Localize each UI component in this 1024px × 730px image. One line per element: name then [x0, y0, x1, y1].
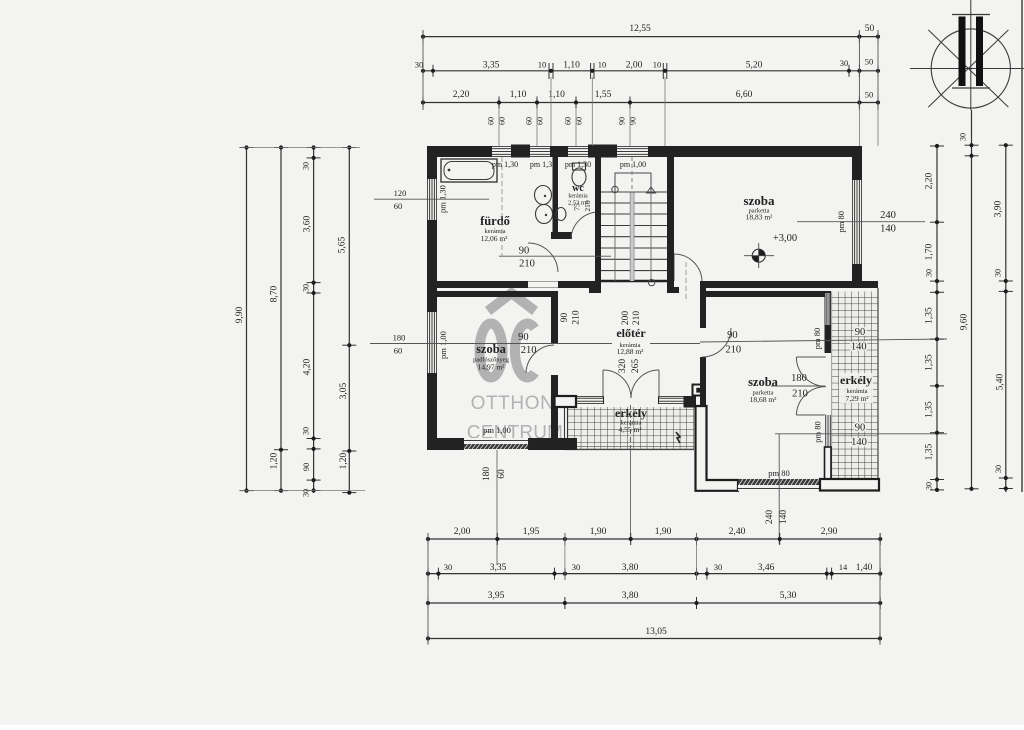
- stair walking line left: [614, 192, 616, 281]
- upper room window size 240/140: [797, 221, 925, 223]
- bathroom axis dashed line: [501, 157, 503, 256]
- stair west wall foot: [589, 287, 601, 293]
- svg-text:30: 30: [994, 465, 1003, 473]
- balcony door axis line: [630, 405, 632, 450]
- washbasin 1: [535, 186, 552, 205]
- svg-text:pm 1,00: pm 1,00: [483, 425, 511, 435]
- left dimension column 8,70 / 1,20: [280, 148, 282, 491]
- double balcony door arcs: [603, 370, 631, 398]
- svg-text:6,60: 6,60: [736, 90, 753, 100]
- svg-text:3,80: 3,80: [622, 591, 639, 601]
- stair treads: [601, 191, 667, 193]
- stair walking line start circle left: [612, 186, 618, 192]
- svg-text:30: 30: [840, 58, 849, 68]
- top wall pier between bathroom windows: [511, 145, 530, 158]
- svg-text:7,29 m²: 7,29 m²: [845, 394, 869, 403]
- svg-text:30: 30: [994, 269, 1003, 277]
- svg-text:1,70: 1,70: [925, 243, 935, 260]
- bottom dimension line 3,95/3,80/5,30: [428, 602, 880, 604]
- bathroom left window size 120/60: [374, 198, 489, 200]
- lower window to right balcony: [825, 415, 832, 447]
- left dimension column 30/3,60/30/4,20/30/90/30: [313, 148, 315, 494]
- svg-text:pm 1,00: pm 1,00: [620, 160, 646, 169]
- stair walking line right: [650, 192, 652, 281]
- svg-text:3,35: 3,35: [490, 563, 507, 573]
- stair walking line start circle bottom: [648, 279, 654, 285]
- level point symbol in upper room: [752, 249, 765, 262]
- right dimension column 3,90/30/5,40/30: [1005, 145, 1007, 492]
- svg-text:210: 210: [572, 310, 582, 325]
- top wall pier left of stair window: [588, 145, 617, 158]
- svg-text:2,20: 2,20: [925, 172, 935, 189]
- svg-text:320: 320: [618, 359, 628, 374]
- compass diagonal lines: [928, 30, 1008, 107]
- svg-text:50: 50: [865, 90, 874, 100]
- hall south wall with double balcony door: [558, 396, 604, 404]
- svg-text:1,40: 1,40: [856, 563, 873, 573]
- lower-left room south wall with window: [427, 438, 577, 450]
- chimney bar right: [976, 17, 983, 87]
- lower-right room east wall windows and balcony door: [825, 291, 832, 325]
- svg-text:90: 90: [727, 330, 738, 341]
- svg-text:50: 50: [865, 57, 874, 67]
- lower-right balcony door size 180/210: [771, 385, 825, 387]
- wc washbasin: [556, 208, 566, 221]
- chimney cut marks: [952, 14, 990, 16]
- wc south wall with door opening: [551, 232, 572, 239]
- drain mark on left balcony: [676, 432, 680, 443]
- lower-right room entry door arc: [702, 328, 731, 357]
- svg-text:140: 140: [851, 342, 867, 353]
- svg-text:OTTHON: OTTHON: [471, 393, 555, 414]
- svg-text:30: 30: [302, 284, 311, 292]
- svg-text:3,80: 3,80: [622, 563, 639, 573]
- left balcony tiled floor: [568, 407, 695, 450]
- svg-text:9,60: 9,60: [960, 313, 970, 330]
- hall west door-side stub wall: [555, 396, 577, 407]
- svg-text:210: 210: [792, 389, 808, 400]
- svg-text:210: 210: [725, 345, 741, 356]
- svg-text:1,35: 1,35: [925, 401, 935, 418]
- svg-text:1,20: 1,20: [270, 452, 280, 469]
- svg-text:30: 30: [959, 133, 968, 141]
- right balcony parapet wall: [820, 479, 879, 491]
- wc toilet: [572, 168, 586, 186]
- svg-text:5,65: 5,65: [338, 236, 348, 253]
- stair east wall foot: [667, 287, 679, 293]
- svg-text:90: 90: [855, 423, 866, 434]
- svg-text:13,05: 13,05: [645, 627, 667, 637]
- stair west wall: [595, 157, 601, 293]
- svg-text:140: 140: [779, 510, 789, 525]
- svg-text:240: 240: [765, 510, 775, 525]
- upper room bottom wall with door opening: [667, 281, 878, 288]
- svg-text:12,88 m²: 12,88 m²: [617, 347, 645, 356]
- svg-text:180: 180: [482, 467, 492, 482]
- svg-text:60: 60: [394, 201, 403, 211]
- svg-text:50: 50: [865, 24, 875, 34]
- lower-left room east wall with door opening: [551, 291, 558, 450]
- stair center railing: [629, 192, 631, 281]
- svg-text:+3,00: +3,00: [773, 233, 797, 244]
- lower-left room top wall: [427, 291, 558, 297]
- svg-text:pm 1,00: pm 1,00: [438, 331, 448, 359]
- svg-text:30: 30: [925, 269, 934, 277]
- svg-text:60: 60: [497, 469, 507, 479]
- bathroom door arc: [528, 243, 558, 272]
- svg-text:5,40: 5,40: [996, 373, 1006, 390]
- svg-text:30: 30: [572, 562, 581, 572]
- svg-text:szoba: szoba: [743, 193, 775, 208]
- svg-text:120: 120: [394, 188, 407, 198]
- svg-text:180: 180: [393, 333, 406, 343]
- lower-right room thick west exterior wall outlined: [696, 406, 739, 491]
- svg-text:90: 90: [560, 313, 570, 323]
- svg-text:240: 240: [880, 210, 896, 221]
- svg-text:60: 60: [564, 117, 573, 125]
- svg-text:5,30: 5,30: [780, 591, 797, 601]
- lower-right room south wall with window: [738, 479, 820, 491]
- svg-text:1,20: 1,20: [339, 452, 349, 469]
- svg-text:60: 60: [394, 346, 403, 356]
- svg-text:2,20: 2,20: [453, 90, 470, 100]
- svg-text:60: 60: [487, 117, 496, 125]
- svg-text:pm 80: pm 80: [813, 421, 823, 443]
- svg-text:1,90: 1,90: [655, 527, 672, 537]
- svg-text:30: 30: [302, 162, 311, 170]
- svg-text:90: 90: [618, 117, 627, 125]
- stair east wall: [667, 157, 674, 293]
- east wall lower solid segment: [825, 447, 832, 479]
- svg-text:1,35: 1,35: [925, 443, 935, 460]
- svg-text:10: 10: [598, 60, 607, 70]
- lower-right room top wall: [705, 291, 830, 297]
- compass horizontal axis: [910, 68, 1024, 70]
- top exterior wall with window openings: [427, 146, 862, 157]
- svg-text:140: 140: [880, 224, 896, 235]
- svg-text:90: 90: [301, 463, 311, 472]
- stair direction arrow: [647, 187, 656, 193]
- svg-text:180: 180: [791, 373, 807, 384]
- svg-text:14,97 m²: 14,97 m²: [478, 363, 506, 372]
- compass circle symbol: [931, 29, 1010, 108]
- svg-text:szoba: szoba: [476, 342, 507, 356]
- svg-text:2,00: 2,00: [454, 527, 471, 537]
- hall east corner block: [684, 396, 697, 408]
- right balcony label: [839, 373, 873, 403]
- svg-text:előtér: előtér: [616, 326, 646, 340]
- svg-text:3,46: 3,46: [758, 563, 775, 573]
- svg-text:4,20: 4,20: [303, 358, 313, 375]
- svg-text:1,55: 1,55: [595, 90, 612, 100]
- right exterior wall of upper room with large window: [852, 146, 862, 288]
- right balcony lower window size 90/140: [775, 433, 947, 435]
- svg-text:pm 1,30: pm 1,30: [530, 160, 556, 169]
- svg-text:3,95: 3,95: [488, 591, 505, 601]
- upper room door axis dashed line: [685, 262, 687, 300]
- svg-text:90: 90: [519, 245, 530, 256]
- svg-text:210: 210: [632, 311, 642, 326]
- bottom dimension line 13,05: [428, 638, 880, 640]
- watermark C letter: [515, 324, 535, 378]
- watermark O letter: [480, 324, 503, 378]
- svg-text:erkély: erkély: [840, 373, 872, 387]
- svg-text:12,55: 12,55: [629, 24, 651, 34]
- lower-right room west wall with door opening: [700, 281, 706, 406]
- svg-text:8,70: 8,70: [270, 285, 280, 302]
- lower-left room door arc: [526, 345, 554, 373]
- svg-text:1,10: 1,10: [563, 61, 580, 71]
- svg-text:2,00: 2,00: [626, 61, 643, 71]
- lower-left window axis line: [496, 450, 498, 565]
- svg-text:3,05: 3,05: [339, 382, 349, 399]
- svg-text:200: 200: [621, 311, 631, 326]
- left dimension column 9,90: [246, 148, 248, 491]
- wc door arc: [571, 212, 598, 239]
- stair axis dashed line: [631, 157, 633, 192]
- svg-text:pm 1,30: pm 1,30: [492, 160, 518, 169]
- bottom witness lines: [427, 533, 429, 644]
- washbasin 2: [536, 205, 553, 224]
- right balcony tiled floor: [832, 292, 879, 479]
- top dimension line 30/3,35/10/1,10/10/2,00/10/5,20/30/50: [423, 70, 876, 72]
- bottom dimension line 2,00/1,95/1,90/1,90/2,40/2,90: [428, 538, 880, 540]
- chimney bar left: [959, 17, 966, 87]
- svg-text:30: 30: [415, 60, 424, 70]
- svg-text:60: 60: [525, 117, 534, 125]
- watermark roof chevron: [488, 293, 535, 311]
- bathroom door size 90/210: [499, 255, 611, 257]
- right dimension column 2,20/1,70/30/1,35x4/30: [936, 146, 938, 490]
- lower-right window leader: [778, 434, 780, 544]
- svg-text:1,95: 1,95: [523, 527, 540, 537]
- svg-text:9,90: 9,90: [235, 306, 245, 323]
- svg-text:14: 14: [839, 562, 848, 572]
- svg-text:30: 30: [925, 482, 934, 490]
- svg-text:18,68 m²: 18,68 m²: [750, 395, 778, 404]
- svg-text:1,35: 1,35: [925, 307, 935, 324]
- svg-text:10: 10: [653, 60, 662, 70]
- scan right edge line: [1021, 0, 1023, 492]
- right dimension column 30 / 9,60: [971, 110, 973, 489]
- svg-text:5,20: 5,20: [746, 61, 763, 71]
- svg-text:3,60: 3,60: [303, 215, 313, 232]
- svg-text:30: 30: [302, 427, 311, 435]
- svg-text:265: 265: [631, 359, 641, 374]
- svg-text:3,35: 3,35: [483, 61, 500, 71]
- left exterior wall with two windows: [427, 146, 437, 450]
- balcony double door arcs of lower-right room: [796, 357, 825, 386]
- svg-text:12,06 m²: 12,06 m²: [481, 234, 509, 243]
- svg-text:210: 210: [583, 200, 592, 212]
- bathroom-wc partition wall: [553, 157, 559, 232]
- svg-text:10: 10: [538, 60, 547, 70]
- stair landing edge: [601, 280, 667, 282]
- center reference line: [370, 343, 612, 345]
- svg-text:210: 210: [519, 259, 535, 270]
- svg-text:2,90: 2,90: [821, 527, 838, 537]
- svg-text:210: 210: [521, 345, 537, 356]
- top dimension line 2,20/1,10/1,10/1,55/6,60/50: [423, 102, 876, 104]
- svg-text:wc: wc: [572, 183, 584, 194]
- svg-text:pm 1,30: pm 1,30: [565, 160, 591, 169]
- svg-text:18,83 m²: 18,83 m²: [746, 213, 774, 222]
- right balcony upper window size 90/140: [851, 327, 867, 353]
- upper room door arc: [674, 254, 702, 281]
- svg-text:pm 80: pm 80: [812, 328, 822, 350]
- svg-text:1,10: 1,10: [510, 90, 527, 100]
- bathroom-wc bottom wall with door opening: [427, 281, 601, 288]
- chimney flue symbol: [693, 385, 705, 396]
- left dimension column 5,65/3,05/1,20: [348, 148, 350, 493]
- bathtub: [441, 159, 497, 182]
- compass vertical axis: [970, 0, 972, 110]
- svg-text:90: 90: [518, 332, 529, 343]
- svg-text:fürdő: fürdő: [480, 214, 510, 228]
- bottom dimension line 30/3,35/30/3,80/30/3,46/14/1,40: [428, 573, 880, 575]
- svg-text:30: 30: [444, 562, 453, 572]
- svg-text:szoba: szoba: [748, 375, 779, 389]
- svg-text:90: 90: [855, 327, 866, 338]
- top witness lines: [422, 30, 424, 110]
- svg-text:75: 75: [573, 203, 582, 211]
- svg-text:30: 30: [714, 562, 723, 572]
- svg-text:1,90: 1,90: [590, 527, 607, 537]
- svg-text:2,40: 2,40: [729, 527, 746, 537]
- svg-text:erkély: erkély: [615, 406, 647, 420]
- top dimension line 12,55 / 50: [423, 36, 876, 38]
- svg-text:3,90: 3,90: [994, 200, 1004, 217]
- stair upper void rectangle: [615, 173, 651, 192]
- svg-text:140: 140: [851, 437, 867, 448]
- svg-text:1,35: 1,35: [925, 354, 935, 371]
- left witness lines: [240, 147, 360, 149]
